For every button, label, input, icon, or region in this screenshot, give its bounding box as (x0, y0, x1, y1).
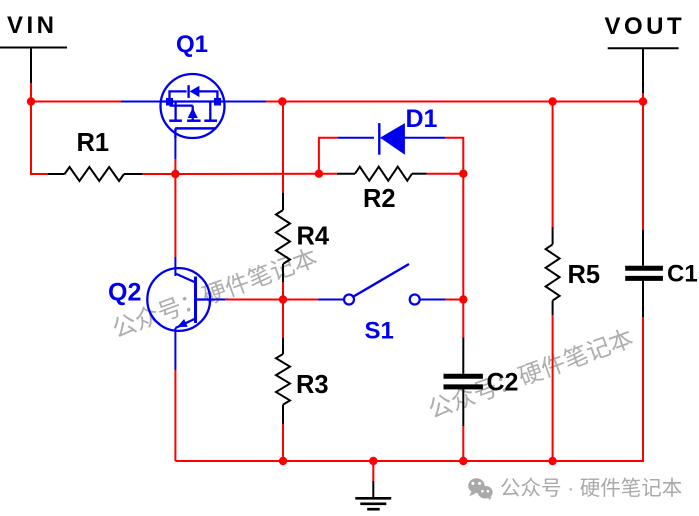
wire R4 top (282, 102, 284, 193)
node S1 right C2 (459, 295, 467, 303)
svg-text:C2: C2 (487, 369, 519, 397)
svg-text:R3: R3 (296, 371, 329, 399)
wire R4 bottom (282, 282, 284, 300)
svg-text:R1: R1 (77, 129, 110, 157)
node A R1 gate (171, 170, 179, 178)
wire R5 top (552, 102, 554, 228)
wire Q2 emitter lead (174, 328, 176, 370)
node R5 top rail (548, 97, 556, 105)
wire ground lead red (372, 461, 374, 481)
svg-text:R4: R4 (297, 223, 330, 251)
node R3 bottom (279, 457, 287, 465)
wire D1 right (405, 138, 463, 174)
wire R2 left (319, 173, 337, 175)
node ground (369, 457, 377, 465)
wire Q1 source lead (121, 101, 166, 103)
svg-text:S1: S1 (365, 318, 394, 345)
wire C1 top (642, 102, 644, 230)
switch S1 (344, 264, 420, 305)
wire R3 bottom (282, 424, 284, 461)
transistor Q2 (147, 268, 210, 331)
resistor R2 (337, 167, 427, 181)
wire R1 to node A (143, 173, 176, 175)
wire S1 right blue (420, 299, 445, 301)
resistor R1 (48, 167, 143, 181)
svg-text:D1: D1 (406, 105, 438, 133)
wire bottom rail (175, 460, 642, 462)
wire VIN lead red (30, 83, 32, 102)
resistor R4 (276, 193, 290, 282)
wire Q2 base lead (210, 299, 225, 301)
node R4 top rail (278, 97, 286, 105)
capacitor C2 (444, 338, 483, 427)
node C2 bottom (459, 457, 467, 465)
wire top rail right (266, 101, 643, 103)
diode D1 (379, 123, 405, 155)
svg-text:公众号 · 硬件笔记本: 公众号 · 硬件笔记本 (500, 477, 682, 500)
node D1 right (459, 170, 467, 178)
resistor R3 (276, 338, 290, 424)
wire R5 bottom (552, 315, 554, 461)
wire Q1 drain lead (219, 101, 266, 103)
wire node A to D1 junction (175, 173, 319, 175)
node VIN rail (27, 97, 35, 105)
wire Q2 base to node B (225, 299, 283, 301)
svg-text:Q2: Q2 (108, 279, 141, 307)
transistor Q1 (161, 74, 225, 138)
wire C2 bottom (462, 426, 464, 461)
wire left rail (31, 102, 48, 175)
wire S1 right red (446, 299, 464, 301)
wire D1 left (319, 138, 374, 174)
wire gate to node A (174, 159, 176, 174)
ground (355, 481, 391, 509)
wire R3 top (282, 300, 284, 339)
wire VOUT lead red (642, 93, 644, 102)
wire C1 bottom (642, 317, 643, 461)
wire Q2 emitter down (174, 370, 176, 461)
wire S1 left red (283, 299, 318, 301)
svg-text:R2: R2 (363, 185, 396, 213)
port VOUT (608, 48, 679, 93)
capacitor C1 (625, 230, 663, 317)
wire Q1 gate lead (174, 138, 176, 159)
wire Q2 collector lead (174, 257, 176, 276)
node B base R4 R3 S1 (279, 295, 287, 303)
node D1 left (315, 170, 323, 178)
wire node A to Q2 collector (174, 174, 176, 257)
wire C2 column top (462, 174, 464, 338)
logo wechat icon (468, 478, 492, 500)
wire R2 right (427, 173, 464, 175)
node R5 bottom (548, 457, 556, 465)
wire S1 left blue (318, 299, 343, 301)
svg-text:R5: R5 (568, 261, 601, 289)
wire top rail left (31, 101, 121, 103)
resistor R5 (546, 227, 560, 315)
svg-text:Q1: Q1 (176, 31, 208, 58)
svg-text:VOUT: VOUT (605, 13, 686, 40)
svg-text:VIN: VIN (7, 12, 58, 39)
port VIN (0, 48, 67, 84)
svg-text:C1: C1 (667, 261, 698, 288)
node VOUT rail (639, 97, 647, 105)
